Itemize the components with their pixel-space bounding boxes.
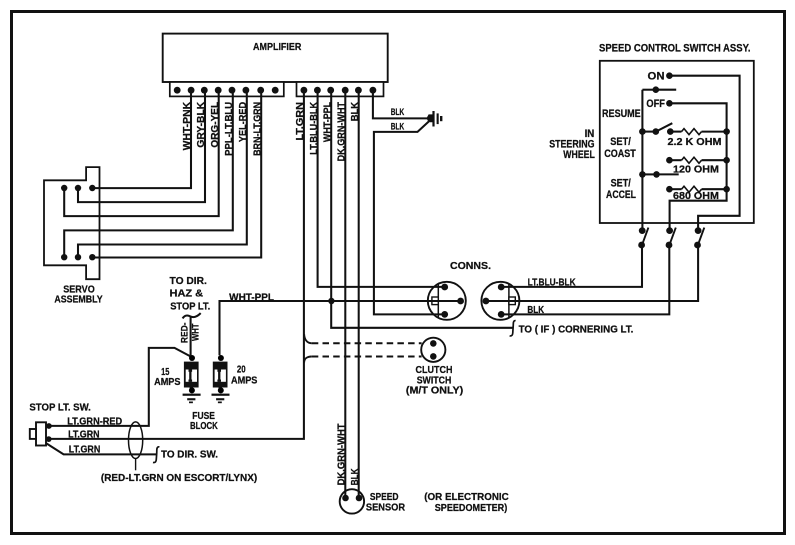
svg-text:WHT-PNK: WHT-PNK — [182, 101, 193, 150]
svg-text:LT.GRN-RED: LT.GRN-RED — [67, 417, 122, 428]
svg-text:2.2 K OHM: 2.2 K OHM — [668, 137, 722, 148]
svg-text:YEL-RED: YEL-RED — [238, 102, 249, 142]
svg-text:(OR ELECTRONIC: (OR ELECTRONIC — [424, 492, 509, 503]
svg-text:120 OHM: 120 OHM — [673, 165, 719, 176]
svg-text:STOP LT. SW.: STOP LT. SW. — [29, 402, 91, 413]
svg-text:WHT: WHT — [191, 323, 202, 341]
svg-text:SPEED CONTROL SWITCH ASSY.: SPEED CONTROL SWITCH ASSY. — [599, 43, 751, 55]
svg-text:ACCEL: ACCEL — [606, 189, 636, 201]
svg-text:BLOCK: BLOCK — [190, 421, 219, 432]
svg-text:LT.GRN: LT.GRN — [295, 102, 306, 141]
svg-text:BLK: BLK — [527, 305, 544, 316]
svg-text:HAZ &: HAZ & — [170, 288, 204, 299]
svg-text:LT.GRN: LT.GRN — [69, 445, 101, 456]
svg-text:LT.BLU-BLK: LT.BLU-BLK — [309, 101, 320, 155]
svg-text:STOP LT.: STOP LT. — [170, 301, 210, 312]
svg-text:BLK: BLK — [350, 468, 361, 486]
svg-text:SENSOR: SENSOR — [366, 503, 406, 514]
svg-text:WHT-PPL: WHT-PPL — [229, 292, 274, 303]
svg-text:ON: ON — [648, 70, 665, 82]
svg-text:AMPS: AMPS — [231, 376, 258, 387]
svg-text:ASSEMBLY: ASSEMBLY — [54, 294, 102, 305]
svg-text:BRN-LT.GRN: BRN-LT.GRN — [252, 102, 263, 156]
svg-text:TO DIR. SW.: TO DIR. SW. — [161, 449, 218, 460]
svg-text:LT.BLU-BLK: LT.BLU-BLK — [528, 277, 576, 288]
svg-text:GRY-BLK: GRY-BLK — [196, 101, 207, 147]
svg-text:(M/T ONLY): (M/T ONLY) — [406, 386, 463, 397]
svg-text:CONNS.: CONNS. — [450, 261, 491, 272]
svg-text:SPEEDOMETER): SPEEDOMETER) — [435, 503, 508, 514]
svg-text:LT.GRN: LT.GRN — [68, 430, 100, 441]
svg-text:TO DIR.: TO DIR. — [170, 276, 208, 287]
svg-text:OFF: OFF — [646, 98, 665, 110]
svg-text:DK.GRN-WHT: DK.GRN-WHT — [337, 423, 348, 485]
svg-text:DK.GRN-WHT: DK.GRN-WHT — [337, 102, 348, 161]
svg-text:COAST: COAST — [604, 148, 636, 160]
svg-text:680 OHM: 680 OHM — [673, 191, 719, 202]
svg-text:ORG-YEL: ORG-YEL — [210, 102, 221, 148]
svg-text:RED-: RED- — [180, 323, 191, 344]
svg-text:SET/: SET/ — [611, 178, 631, 190]
svg-text:(RED-LT.GRN ON ESCORT/LYNX): (RED-LT.GRN ON ESCORT/LYNX) — [101, 473, 257, 484]
svg-text:SET/: SET/ — [610, 136, 631, 148]
svg-text:AMPLIFIER: AMPLIFIER — [253, 42, 302, 53]
svg-text:TO ( IF ) CORNERING LT.: TO ( IF ) CORNERING LT. — [519, 324, 634, 335]
svg-text:PPL-LT.BLU: PPL-LT.BLU — [224, 102, 235, 156]
svg-text:20: 20 — [237, 365, 246, 376]
svg-text:BLK: BLK — [391, 107, 404, 118]
svg-text:WHT-PPL: WHT-PPL — [322, 102, 333, 142]
svg-text:BLK: BLK — [391, 122, 404, 133]
svg-text:BLK: BLK — [350, 101, 361, 121]
svg-text:RESUME: RESUME — [602, 108, 641, 120]
svg-text:SPEED: SPEED — [370, 492, 399, 503]
svg-text:AMPS: AMPS — [154, 377, 181, 388]
svg-text:WHEEL: WHEEL — [563, 149, 595, 161]
